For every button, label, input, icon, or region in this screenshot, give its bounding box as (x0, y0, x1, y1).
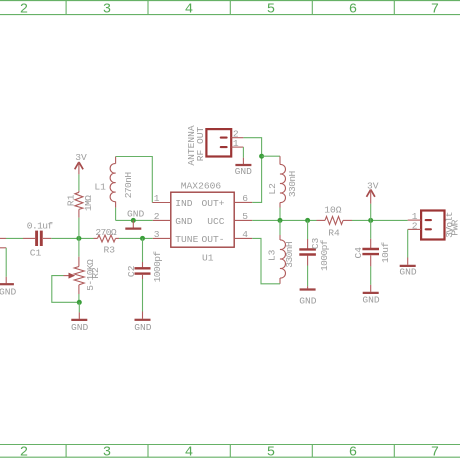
svg-text:U1: U1 (202, 252, 214, 263)
svg-text:R3: R3 (104, 244, 116, 255)
U1 pin 5 UCC stub (234, 211, 252, 222)
svg-text:0.1uf: 0.1uf (27, 220, 54, 231)
frame bottom digits (20, 445, 439, 460)
supply 3V left (75, 152, 87, 175)
U1 pin 4 OUT- stub (234, 229, 252, 240)
svg-text:C2: C2 (126, 265, 137, 277)
svg-text:7: 7 (431, 2, 439, 18)
svg-text:GND: GND (127, 208, 145, 219)
svg-text:270Ω: 270Ω (95, 227, 116, 238)
wire vcc net pin5 to R4 (252, 219, 316, 221)
svg-text:TUNE: TUNE (175, 234, 198, 245)
capacitor C1 (27, 220, 54, 258)
capacitor C2 (126, 251, 163, 283)
inductor L3 (267, 235, 295, 284)
svg-text:L1: L1 (94, 182, 106, 193)
wire 3V to R1 (78, 174, 80, 190)
wire connector pin2 to ground (407, 229, 409, 257)
power connector 3Volt (421, 211, 460, 240)
frame bottom band (0, 445, 460, 458)
wire left edge lower pin stub (0, 247, 6, 249)
ground below R2 (71, 312, 89, 333)
IC U1 MAX2606 (171, 181, 234, 264)
svg-text:2: 2 (412, 220, 418, 231)
potentiometer R2 (64, 257, 101, 294)
svg-text:2: 2 (20, 2, 28, 18)
svg-text:OUT-: OUT- (201, 234, 224, 245)
svg-text:3V: 3V (75, 152, 87, 163)
svg-text:1000pf: 1000pf (152, 251, 163, 283)
wire C2 to ground (142, 275, 144, 279)
U1 pin 2 GND stub (153, 211, 171, 222)
frame top band (0, 1, 460, 15)
wire C1 right lead and net to R3 (43, 237, 51, 239)
ground below C4 (362, 285, 380, 306)
svg-text:GND: GND (0, 287, 17, 298)
svg-text:10uf: 10uf (380, 242, 391, 263)
svg-text:PWR: PWR (450, 219, 460, 235)
svg-text:R2: R2 (90, 267, 101, 279)
svg-text:L2: L2 (267, 183, 278, 195)
svg-text:GND: GND (235, 166, 253, 177)
svg-text:L3: L3 (267, 249, 278, 261)
svg-text:3: 3 (103, 445, 111, 460)
svg-text:MAX2606: MAX2606 (181, 181, 222, 192)
wire R4 to connector pin1 (352, 219, 408, 221)
node junction at R1/R2 tap (76, 236, 81, 241)
node R2 bottom junction (77, 300, 82, 305)
svg-text:1MΩ: 1MΩ (83, 195, 94, 211)
U1 pin 6 OUT+ stub (234, 193, 252, 204)
svg-text:C4: C4 (353, 247, 364, 259)
wire junction to L2 top (262, 155, 280, 157)
svg-text:1: 1 (233, 138, 239, 149)
svg-text:OUT+: OUT+ (201, 198, 224, 209)
svg-text:1000pf: 1000pf (319, 239, 330, 271)
svg-text:GND: GND (134, 322, 152, 333)
svg-text:6: 6 (349, 2, 357, 18)
wire C4 to ground (370, 255, 372, 266)
supply 3V right (367, 181, 379, 204)
svg-text:270nH: 270nH (123, 173, 134, 199)
wire R1 to junction (78, 218, 80, 239)
wire 3V to junction (370, 204, 372, 221)
ground below C2 (134, 312, 152, 334)
svg-text:R1: R1 (66, 194, 77, 206)
svg-text:GND: GND (299, 296, 317, 307)
svg-text:4: 4 (185, 2, 193, 18)
svg-text:6: 6 (349, 445, 357, 460)
svg-text:5: 5 (242, 211, 248, 222)
ground at pin2 (125, 208, 144, 228)
wire C3 to ground (307, 256, 309, 266)
svg-text:IND: IND (175, 198, 193, 209)
svg-text:R4: R4 (328, 228, 340, 239)
resistor R1 (66, 191, 95, 218)
svg-text:330nH: 330nH (284, 242, 295, 268)
inductor L1 (94, 157, 133, 208)
antenna pin 1 stub (231, 138, 243, 149)
wire antenna pin1 to ground (242, 147, 244, 158)
wire R2 junction to ground (78, 302, 80, 312)
svg-text:10Ω: 10Ω (324, 204, 342, 215)
svg-text:3: 3 (154, 229, 160, 240)
frame top digits (20, 2, 439, 18)
resistor R3 (94, 227, 120, 255)
U1 pin 1 IND stub (152, 193, 171, 204)
svg-text:6: 6 (242, 193, 248, 204)
antenna connector X1 (186, 125, 231, 166)
wire antenna pin2 net to L2/pin6 (243, 138, 261, 203)
svg-text:2: 2 (20, 445, 28, 460)
connector pin 2 stub (408, 220, 421, 231)
ground left edge (0, 277, 17, 298)
svg-text:7: 7 (431, 445, 439, 460)
wire mic net to C1 left lead (6, 237, 23, 239)
svg-text:GND: GND (362, 294, 380, 305)
connector pin 1 stub (408, 211, 421, 222)
capacitor C4 (353, 242, 391, 263)
wire R3 to pin3 (119, 237, 153, 239)
U1 pin 3 TUNE stub (153, 229, 171, 240)
node junction GND tap (131, 218, 136, 223)
inductor L2 (267, 156, 298, 207)
svg-text:4: 4 (185, 445, 193, 460)
node junction C2 tap (140, 236, 145, 241)
svg-text:2: 2 (154, 211, 160, 222)
antenna pin 2 stub (231, 129, 243, 140)
wire R2 bottom to junction (78, 294, 80, 302)
wire junction to C4 (370, 220, 372, 238)
svg-text:C1: C1 (30, 247, 42, 258)
node junction 3V/C4 (368, 218, 373, 223)
ground below connector (399, 258, 417, 278)
svg-text:4: 4 (242, 229, 248, 240)
wire left GND drop (5, 248, 7, 277)
ground antenna (235, 158, 253, 177)
wire L2 bottom to vcc net (279, 208, 281, 221)
wire gnd net pin2 (116, 219, 153, 221)
svg-text:5: 5 (267, 445, 275, 460)
wire junction down to R2 (78, 238, 80, 256)
capacitor C3 (299, 238, 330, 271)
svg-text:GND: GND (175, 216, 193, 227)
wire L3 bottom to pin4 (252, 238, 280, 283)
svg-text:3V: 3V (367, 181, 379, 192)
node junction C3 tap (305, 218, 310, 223)
wire mic net left edge red pin stub (0, 237, 6, 239)
svg-text:UCC: UCC (207, 216, 225, 227)
ground below C3 (299, 286, 317, 307)
node junction antenna net (259, 154, 264, 159)
svg-text:1: 1 (154, 193, 160, 204)
wire junction to C2 (142, 238, 144, 262)
svg-text:5: 5 (267, 2, 275, 18)
wire R2 wiper loop (52, 276, 80, 303)
wire junction to L3 (279, 220, 281, 235)
svg-text:330nH: 330nH (287, 171, 298, 197)
wire L1 bottom (115, 208, 117, 221)
node junction L2/L3 (278, 218, 283, 223)
resistor R4 (317, 204, 353, 238)
svg-text:RF OUT: RF OUT (195, 126, 206, 161)
svg-text:GND: GND (399, 267, 417, 278)
svg-text:3: 3 (103, 2, 111, 18)
wire junction to C3 (307, 220, 309, 239)
wire L1 top to pin1 (116, 157, 153, 203)
svg-text:GND: GND (71, 322, 89, 333)
